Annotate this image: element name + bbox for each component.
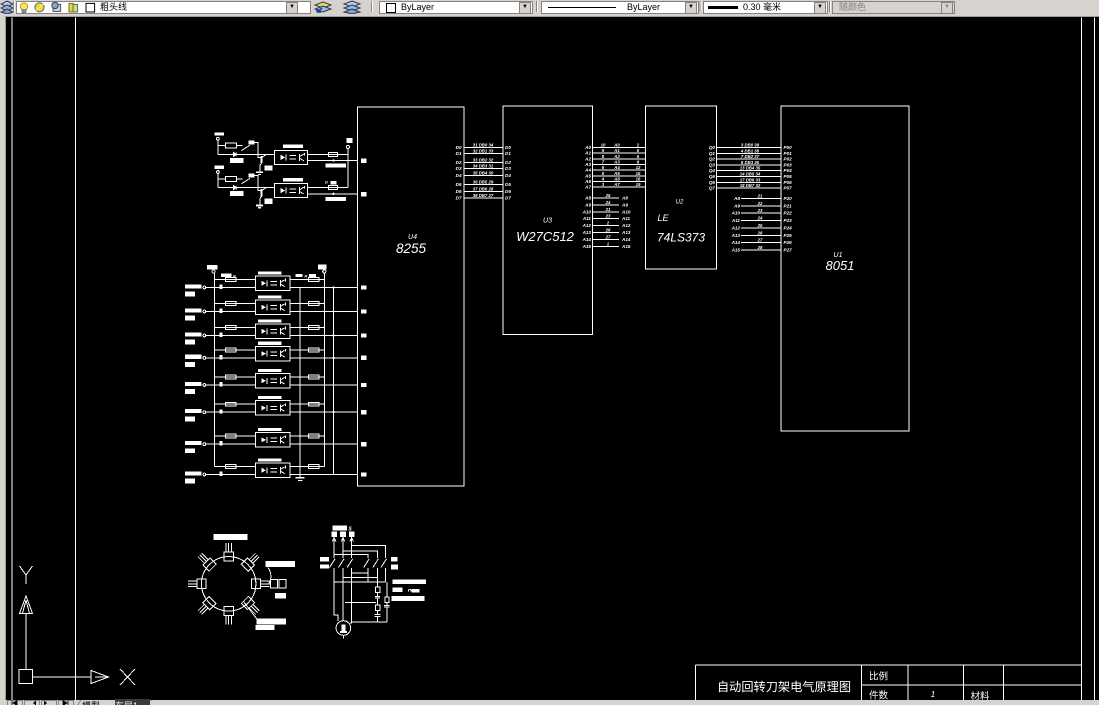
R label row1 right xyxy=(296,274,303,277)
svg-text:35 DB4 30: 35 DB4 30 xyxy=(473,171,494,176)
resistor right ch3 xyxy=(309,326,320,330)
input wire ch5 xyxy=(206,384,256,386)
motor M circle xyxy=(336,621,351,636)
output wire ch2 to U4 xyxy=(290,311,358,313)
svg-text:12: 12 xyxy=(636,165,641,170)
wire stub A14 from U3 xyxy=(593,238,620,240)
junction chA xyxy=(332,159,334,161)
R label row1 left xyxy=(221,274,232,278)
U4 pin number blob 8 xyxy=(361,410,367,414)
svg-text:A12: A12 xyxy=(582,223,592,228)
left branch wire ch7 xyxy=(215,435,256,437)
svg-text:26: 26 xyxy=(605,228,611,233)
wire A10 to 8051 P22 xyxy=(741,212,781,214)
rotary sensor label top xyxy=(214,534,248,540)
frame left inner border xyxy=(75,18,77,701)
svg-text:P24: P24 xyxy=(784,225,793,230)
wire to resistor chB xyxy=(218,178,226,180)
junction blob ch5 xyxy=(220,382,223,386)
IC U4 8255 body xyxy=(358,107,465,486)
IC U3 W27C512 body xyxy=(503,106,593,335)
svg-text:A13: A13 xyxy=(582,230,592,235)
svg-text:21: 21 xyxy=(605,207,611,212)
rotary sensor circle xyxy=(202,557,256,611)
svg-text:A4: A4 xyxy=(613,165,620,170)
svg-text:Q2: Q2 xyxy=(709,157,716,162)
svg-text:W27C512: W27C512 xyxy=(516,229,575,244)
resistor left ch2 xyxy=(226,302,237,306)
wire resistor to switch chA xyxy=(236,145,242,147)
connector square 1 xyxy=(270,579,277,587)
junction blob ch4 xyxy=(220,355,223,359)
resistor R chA xyxy=(226,143,237,148)
leader arc xyxy=(268,568,271,585)
optocoupler transistor ch6 xyxy=(280,405,282,412)
color combo xyxy=(379,1,533,14)
optocoupler transistor chB xyxy=(299,187,301,194)
wire address bus A3: W27C512 to 74LS373 xyxy=(593,164,646,166)
junction blob ch6 xyxy=(220,409,223,413)
U4 pin number blob 6 xyxy=(361,356,367,360)
rotary label bottom 2 xyxy=(256,625,275,630)
supply terminals L1 L2 L3 xyxy=(331,532,337,537)
switch lever chB xyxy=(241,178,250,183)
input wire ch4 xyxy=(206,357,256,359)
left branch wire ch4 xyxy=(215,349,256,351)
wire switch to transistor base chB xyxy=(255,176,261,191)
optocoupler equals ch4 xyxy=(270,351,277,353)
svg-text:25: 25 xyxy=(605,193,611,198)
optocoupler equals chA xyxy=(290,155,297,157)
model tab xyxy=(82,699,100,705)
wire address bus A1: W27C512 to 74LS373 xyxy=(593,152,646,154)
resistor left ch3 xyxy=(226,326,237,330)
junction chB xyxy=(332,193,334,195)
svg-text:24: 24 xyxy=(757,216,763,221)
optocoupler label chB xyxy=(283,178,303,182)
output wire ch3 to U4 xyxy=(290,335,358,337)
svg-text:23: 23 xyxy=(605,214,611,219)
right branch wire ch7 xyxy=(290,435,324,437)
optocoupler box ch5 xyxy=(256,374,291,389)
optocoupler U chB box xyxy=(275,184,308,198)
optocoupler label ch6 xyxy=(258,396,282,399)
svg-text:P00: P00 xyxy=(784,145,793,150)
bottom bus wire xyxy=(352,621,387,623)
svg-text:A11: A11 xyxy=(731,218,741,223)
optocoupler transistor ch8 xyxy=(280,467,282,474)
VCC terminal right rail xyxy=(318,265,327,270)
svg-text:A3: A3 xyxy=(584,162,591,167)
right branch wire ch6 xyxy=(290,403,324,405)
svg-text:A10: A10 xyxy=(621,209,631,214)
svg-text:P04: P04 xyxy=(784,168,793,173)
svg-text:D6: D6 xyxy=(505,189,511,194)
motor feed wire 2 xyxy=(342,578,344,621)
UCS label X xyxy=(120,669,135,685)
right branch wire ch8 xyxy=(290,466,324,468)
optocoupler LED ch8 xyxy=(261,468,266,473)
wire opto lower output chA to U4 xyxy=(308,160,358,162)
svg-text:A11: A11 xyxy=(621,216,631,221)
optocoupler equals ch6 xyxy=(270,405,277,407)
position box 6 xyxy=(196,596,216,616)
svg-text:U4: U4 xyxy=(408,234,417,241)
svg-text:Q6: Q6 xyxy=(709,180,716,185)
layer combo xyxy=(16,1,311,14)
output wire ch7 to U4 xyxy=(290,443,358,445)
input wire ch8 xyxy=(206,474,256,476)
optocoupler equals ch3 xyxy=(270,329,277,331)
svg-text:D3: D3 xyxy=(505,166,511,171)
svg-text:R: R xyxy=(304,273,307,278)
diode chB xyxy=(233,185,236,189)
optocoupler transistor ch3 xyxy=(280,328,282,335)
svg-text:D7: D7 xyxy=(456,195,462,200)
svg-text:D0: D0 xyxy=(505,145,511,150)
svg-text:74LS373: 74LS373 xyxy=(657,231,705,245)
motor labels right xyxy=(393,579,426,584)
resistor right ch7 xyxy=(309,434,320,438)
output wire ch5 to U4 xyxy=(290,384,358,386)
svg-text:32 DB1 33: 32 DB1 33 xyxy=(473,149,494,154)
svg-text:P01: P01 xyxy=(784,151,793,156)
svg-text:A1: A1 xyxy=(613,148,620,153)
optocoupler label ch2 xyxy=(258,295,282,298)
resistor left ch8 xyxy=(226,465,237,469)
svg-text:A13: A13 xyxy=(621,230,631,235)
svg-text:D0: D0 xyxy=(456,145,462,150)
optocoupler LED ch4 xyxy=(261,351,266,356)
connector label below xyxy=(275,593,286,599)
output channel 3 left labels xyxy=(185,332,202,336)
resistor right ch8 xyxy=(309,465,320,469)
terminal ch5 xyxy=(203,384,206,387)
optocoupler label ch7 xyxy=(258,428,282,431)
crossover wire T3 xyxy=(352,572,369,574)
wire data bus D6: 8255 to W27C512 xyxy=(464,191,504,193)
motor feed wire 1 xyxy=(334,582,338,621)
svg-text:28: 28 xyxy=(757,245,763,250)
optocoupler LED ch7 xyxy=(261,437,266,442)
svg-text:P06: P06 xyxy=(784,180,793,185)
U4 pin number blob 9 xyxy=(361,442,367,446)
svg-text:R: R xyxy=(233,273,236,278)
wire bus Q2: 74LS373 to 8051 P02 xyxy=(717,158,782,160)
wire terminal drop chB xyxy=(217,173,219,187)
optocoupler transistor ch5 xyxy=(280,377,282,384)
svg-text:A14: A14 xyxy=(621,237,631,242)
toolbar grooves xyxy=(0,0,1099,16)
svg-text:U2: U2 xyxy=(676,200,684,206)
resistor R chB xyxy=(226,176,237,181)
wire opto upper output chA xyxy=(308,153,348,155)
motor feed wire 3 xyxy=(350,573,352,623)
right branch wire ch2 xyxy=(290,303,324,305)
UCS icon origin box xyxy=(19,670,33,684)
optocoupler label ch8 xyxy=(258,458,282,461)
svg-text:3 DB0 39: 3 DB0 39 xyxy=(741,143,760,148)
svg-text:38 DB7 27: 38 DB7 27 xyxy=(473,193,494,198)
branch L2 to reverse contactor xyxy=(343,551,377,558)
wire to resistor chA xyxy=(218,145,226,147)
transistor Q chA collector xyxy=(262,154,266,157)
left branch wire ch5 xyxy=(215,376,256,378)
wire data bus D3: 8255 to W27C512 xyxy=(464,168,504,170)
svg-text:10: 10 xyxy=(601,143,606,148)
svg-text:26: 26 xyxy=(757,230,763,235)
svg-text:P02: P02 xyxy=(784,157,793,162)
svg-text:Q3: Q3 xyxy=(709,162,716,167)
VCC terminal left rail xyxy=(207,265,218,269)
output channel 5 left labels xyxy=(185,382,202,386)
wire resistor to switch chB xyxy=(236,178,242,180)
svg-text:Q5: Q5 xyxy=(709,174,716,179)
svg-text:自动回转刀架电气原理图: 自动回转刀架电气原理图 xyxy=(717,679,851,694)
svg-text:A9: A9 xyxy=(733,203,740,208)
optocoupler U chA box xyxy=(275,150,308,164)
resistor left ch4 xyxy=(226,348,237,352)
wire data bus D2: 8255 to W27C512 xyxy=(464,162,504,164)
IC U1 8051 body xyxy=(781,106,909,431)
svg-text:A11: A11 xyxy=(582,216,592,221)
svg-text:LE: LE xyxy=(657,213,669,223)
wire address bus A2: W27C512 to 74LS373 xyxy=(593,158,646,160)
position box 8 xyxy=(197,552,217,572)
resistor left ch5 xyxy=(226,375,237,379)
optocoupler transistor chA xyxy=(299,154,301,161)
svg-text:D4: D4 xyxy=(505,173,511,178)
svg-text:8051: 8051 xyxy=(826,258,855,273)
svg-text:D2: D2 xyxy=(456,160,462,165)
svg-text:Q4: Q4 xyxy=(709,168,716,173)
position box 3 xyxy=(251,579,269,589)
svg-text:P23: P23 xyxy=(784,218,793,223)
wire stub A11 from U3 xyxy=(593,218,620,220)
UCS X arrowhead xyxy=(91,671,109,684)
phase drop wire x=334.1 xyxy=(333,537,335,558)
transistor Q chB bar xyxy=(260,189,262,196)
svg-text:A14: A14 xyxy=(582,237,592,242)
terminal ch2 xyxy=(203,310,206,313)
wire bus Q7: 74LS373 to 8051 P07 xyxy=(717,187,782,189)
svg-text:A12: A12 xyxy=(621,223,631,228)
optocoupler label ch1 xyxy=(258,271,282,274)
optocoupler label ch4 xyxy=(258,342,282,345)
svg-text:D5: D5 xyxy=(505,182,511,187)
input wire ch7 xyxy=(206,443,256,445)
wire A15 to 8051 P27 xyxy=(741,249,781,251)
svg-text:A4: A4 xyxy=(584,168,591,173)
junction blob ch7 xyxy=(220,441,223,445)
terminal ch4 xyxy=(203,357,206,360)
wire data bus D5: 8255 to W27C512 xyxy=(464,184,504,186)
rotary label bottom 1 xyxy=(257,619,287,625)
wire A11 to 8051 P23 xyxy=(741,220,781,222)
emitter common rail xyxy=(299,288,301,478)
svg-text:D6: D6 xyxy=(456,189,462,194)
svg-text:7 DB2 37: 7 DB2 37 xyxy=(741,154,760,159)
resistor left ch6 xyxy=(226,402,237,406)
switch contact block chA xyxy=(248,141,254,145)
svg-text:A8: A8 xyxy=(733,196,740,201)
svg-text:P21: P21 xyxy=(784,203,793,208)
svg-text:A9: A9 xyxy=(621,202,628,207)
layers toolbar icon xyxy=(0,0,14,14)
svg-text:D1: D1 xyxy=(456,151,462,156)
svg-text:1: 1 xyxy=(931,690,935,699)
thermal contact bars 1 xyxy=(375,595,380,597)
frame left outer border xyxy=(11,18,13,701)
svg-text:A5: A5 xyxy=(613,171,620,176)
optocoupler box ch3 xyxy=(256,324,291,339)
svg-text:D: D xyxy=(325,180,328,185)
svg-text:16: 16 xyxy=(636,177,641,182)
phase drop wire x=343 xyxy=(342,537,344,558)
resistor right ch1 xyxy=(309,278,320,282)
wire A13 to 8051 P25 xyxy=(741,234,781,236)
switch lever chA xyxy=(241,145,250,150)
svg-text:A2: A2 xyxy=(613,154,620,159)
wire stub A15 from U3 xyxy=(593,245,620,247)
ground chB xyxy=(256,205,263,207)
connector square 2 xyxy=(279,579,286,587)
wire address bus A0: W27C512 to 74LS373 xyxy=(593,147,646,149)
net label under output chB xyxy=(326,197,346,201)
svg-text:A15: A15 xyxy=(731,248,741,253)
wire A8 to 8051 P20 xyxy=(741,198,781,200)
optocoupler box ch6 xyxy=(256,401,291,416)
resistor left ch1 xyxy=(226,278,237,282)
optocoupler label ch5 xyxy=(258,369,282,372)
svg-text:18 DB7 32: 18 DB7 32 xyxy=(740,183,761,188)
junction dot ch3 xyxy=(333,334,335,336)
svg-text:23: 23 xyxy=(757,208,763,213)
wire terminal drop chA xyxy=(217,140,219,154)
wire stub A12 from U3 xyxy=(593,225,620,227)
svg-text:A7: A7 xyxy=(613,182,620,187)
contactor KM1 poles xyxy=(330,559,336,568)
svg-text:33 DB2 32: 33 DB2 32 xyxy=(473,158,494,163)
KM2 label xyxy=(391,557,398,561)
wire data bus D1: 8255 to W27C512 xyxy=(464,153,504,155)
wire stub A10 from U3 xyxy=(593,211,620,213)
tab nav buttons xyxy=(7,700,267,705)
UCS Y arrowhead xyxy=(20,596,33,614)
right VCC rail xyxy=(323,273,325,467)
svg-text:U3: U3 xyxy=(543,218,552,225)
wire opto lower output chB to U4 xyxy=(308,193,358,195)
aux element xyxy=(385,597,389,602)
value label chA xyxy=(230,158,244,163)
two layer tool icons xyxy=(314,0,366,14)
thermal element 1 xyxy=(375,587,379,592)
optocoupler transistor ch7 xyxy=(280,436,282,443)
svg-text:P20: P20 xyxy=(784,196,793,201)
transistor label chA xyxy=(264,165,272,170)
wire A12 to 8051 P24 xyxy=(741,227,781,229)
motor section: supply label xyxy=(333,526,347,531)
VCC terminal right of channels xyxy=(346,138,352,143)
svg-text:P27: P27 xyxy=(784,248,793,253)
transistor Q chA bar xyxy=(260,156,262,163)
left branch wire ch1 xyxy=(215,279,256,281)
U4 pin number blob 7 xyxy=(361,383,367,387)
junction blob ch3 xyxy=(220,333,223,337)
optocoupler transistor ch2 xyxy=(280,304,282,311)
U4 pin number blob 5 xyxy=(361,333,367,337)
title block mid line xyxy=(862,684,1082,686)
terminal ch7 xyxy=(203,443,206,446)
svg-text:Q7: Q7 xyxy=(709,186,716,191)
svg-text:A10: A10 xyxy=(582,209,592,214)
thermal contact bars 2 xyxy=(375,614,381,616)
lineweight combo xyxy=(703,1,828,14)
optocoupler LED ch2 xyxy=(261,305,266,310)
wire address bus A5: W27C512 to 74LS373 xyxy=(593,175,646,177)
optocoupler LED chA xyxy=(281,155,286,160)
svg-text:27: 27 xyxy=(605,234,611,239)
svg-text:P05: P05 xyxy=(784,174,793,179)
input terminal label chA xyxy=(215,132,224,135)
wire address bus A7: W27C512 to 74LS373 xyxy=(593,186,646,188)
svg-text:15: 15 xyxy=(636,171,641,176)
resistor right ch2 xyxy=(309,302,320,306)
position box 1 xyxy=(224,543,234,561)
input wire ch2 xyxy=(206,311,256,313)
optocoupler equals ch2 xyxy=(270,305,277,307)
input terminal label chB xyxy=(215,166,224,169)
optocoupler transistor ch4 xyxy=(280,350,282,357)
U4 pin number blob 1 xyxy=(361,158,367,162)
output wire ch8 to U4 xyxy=(290,474,358,476)
svg-text:D4: D4 xyxy=(456,173,462,178)
optocoupler box ch1 xyxy=(256,276,291,291)
wire address bus A4: W27C512 to 74LS373 xyxy=(593,169,646,171)
svg-text:A3: A3 xyxy=(613,160,620,165)
junction blob ch8 xyxy=(220,472,223,476)
resistor right ch5 xyxy=(309,375,320,379)
wire bus Q1: 74LS373 to 8051 P01 xyxy=(717,152,782,154)
crossover wire T1 xyxy=(334,581,385,583)
thermal element 2 xyxy=(375,605,379,610)
title block top line xyxy=(696,664,1082,666)
ground chA xyxy=(256,172,263,174)
wire stub A9 from U3 xyxy=(593,204,620,206)
svg-text:P03: P03 xyxy=(784,162,793,167)
output channel 4 left labels xyxy=(185,355,202,359)
svg-text:A10: A10 xyxy=(731,211,741,216)
thermal branch wire xyxy=(377,582,379,587)
svg-text:31 DB0 34: 31 DB0 34 xyxy=(473,143,494,148)
optocoupler LED ch6 xyxy=(261,405,266,410)
crossover wire T2 xyxy=(343,577,377,579)
U4 pin number blob 10 xyxy=(361,472,367,476)
main wire chA xyxy=(218,153,275,155)
output channel 8 left labels xyxy=(185,471,202,475)
terminal ch3 xyxy=(203,334,206,337)
U4 pin number blob 3 xyxy=(361,285,367,289)
output channel 2 left labels xyxy=(185,308,202,312)
wire bus Q4: 74LS373 to 8051 P04 xyxy=(717,170,782,172)
input terminal chB xyxy=(217,171,220,174)
wire data bus D7: 8255 to W27C512 xyxy=(464,197,504,199)
wire bus Q0: 74LS373 to 8051 P00 xyxy=(717,147,782,149)
svg-text:37 DB6 28: 37 DB6 28 xyxy=(473,187,494,192)
diode chA xyxy=(233,152,236,156)
svg-text:8255: 8255 xyxy=(396,241,427,256)
optocoupler box ch8 xyxy=(256,463,291,478)
